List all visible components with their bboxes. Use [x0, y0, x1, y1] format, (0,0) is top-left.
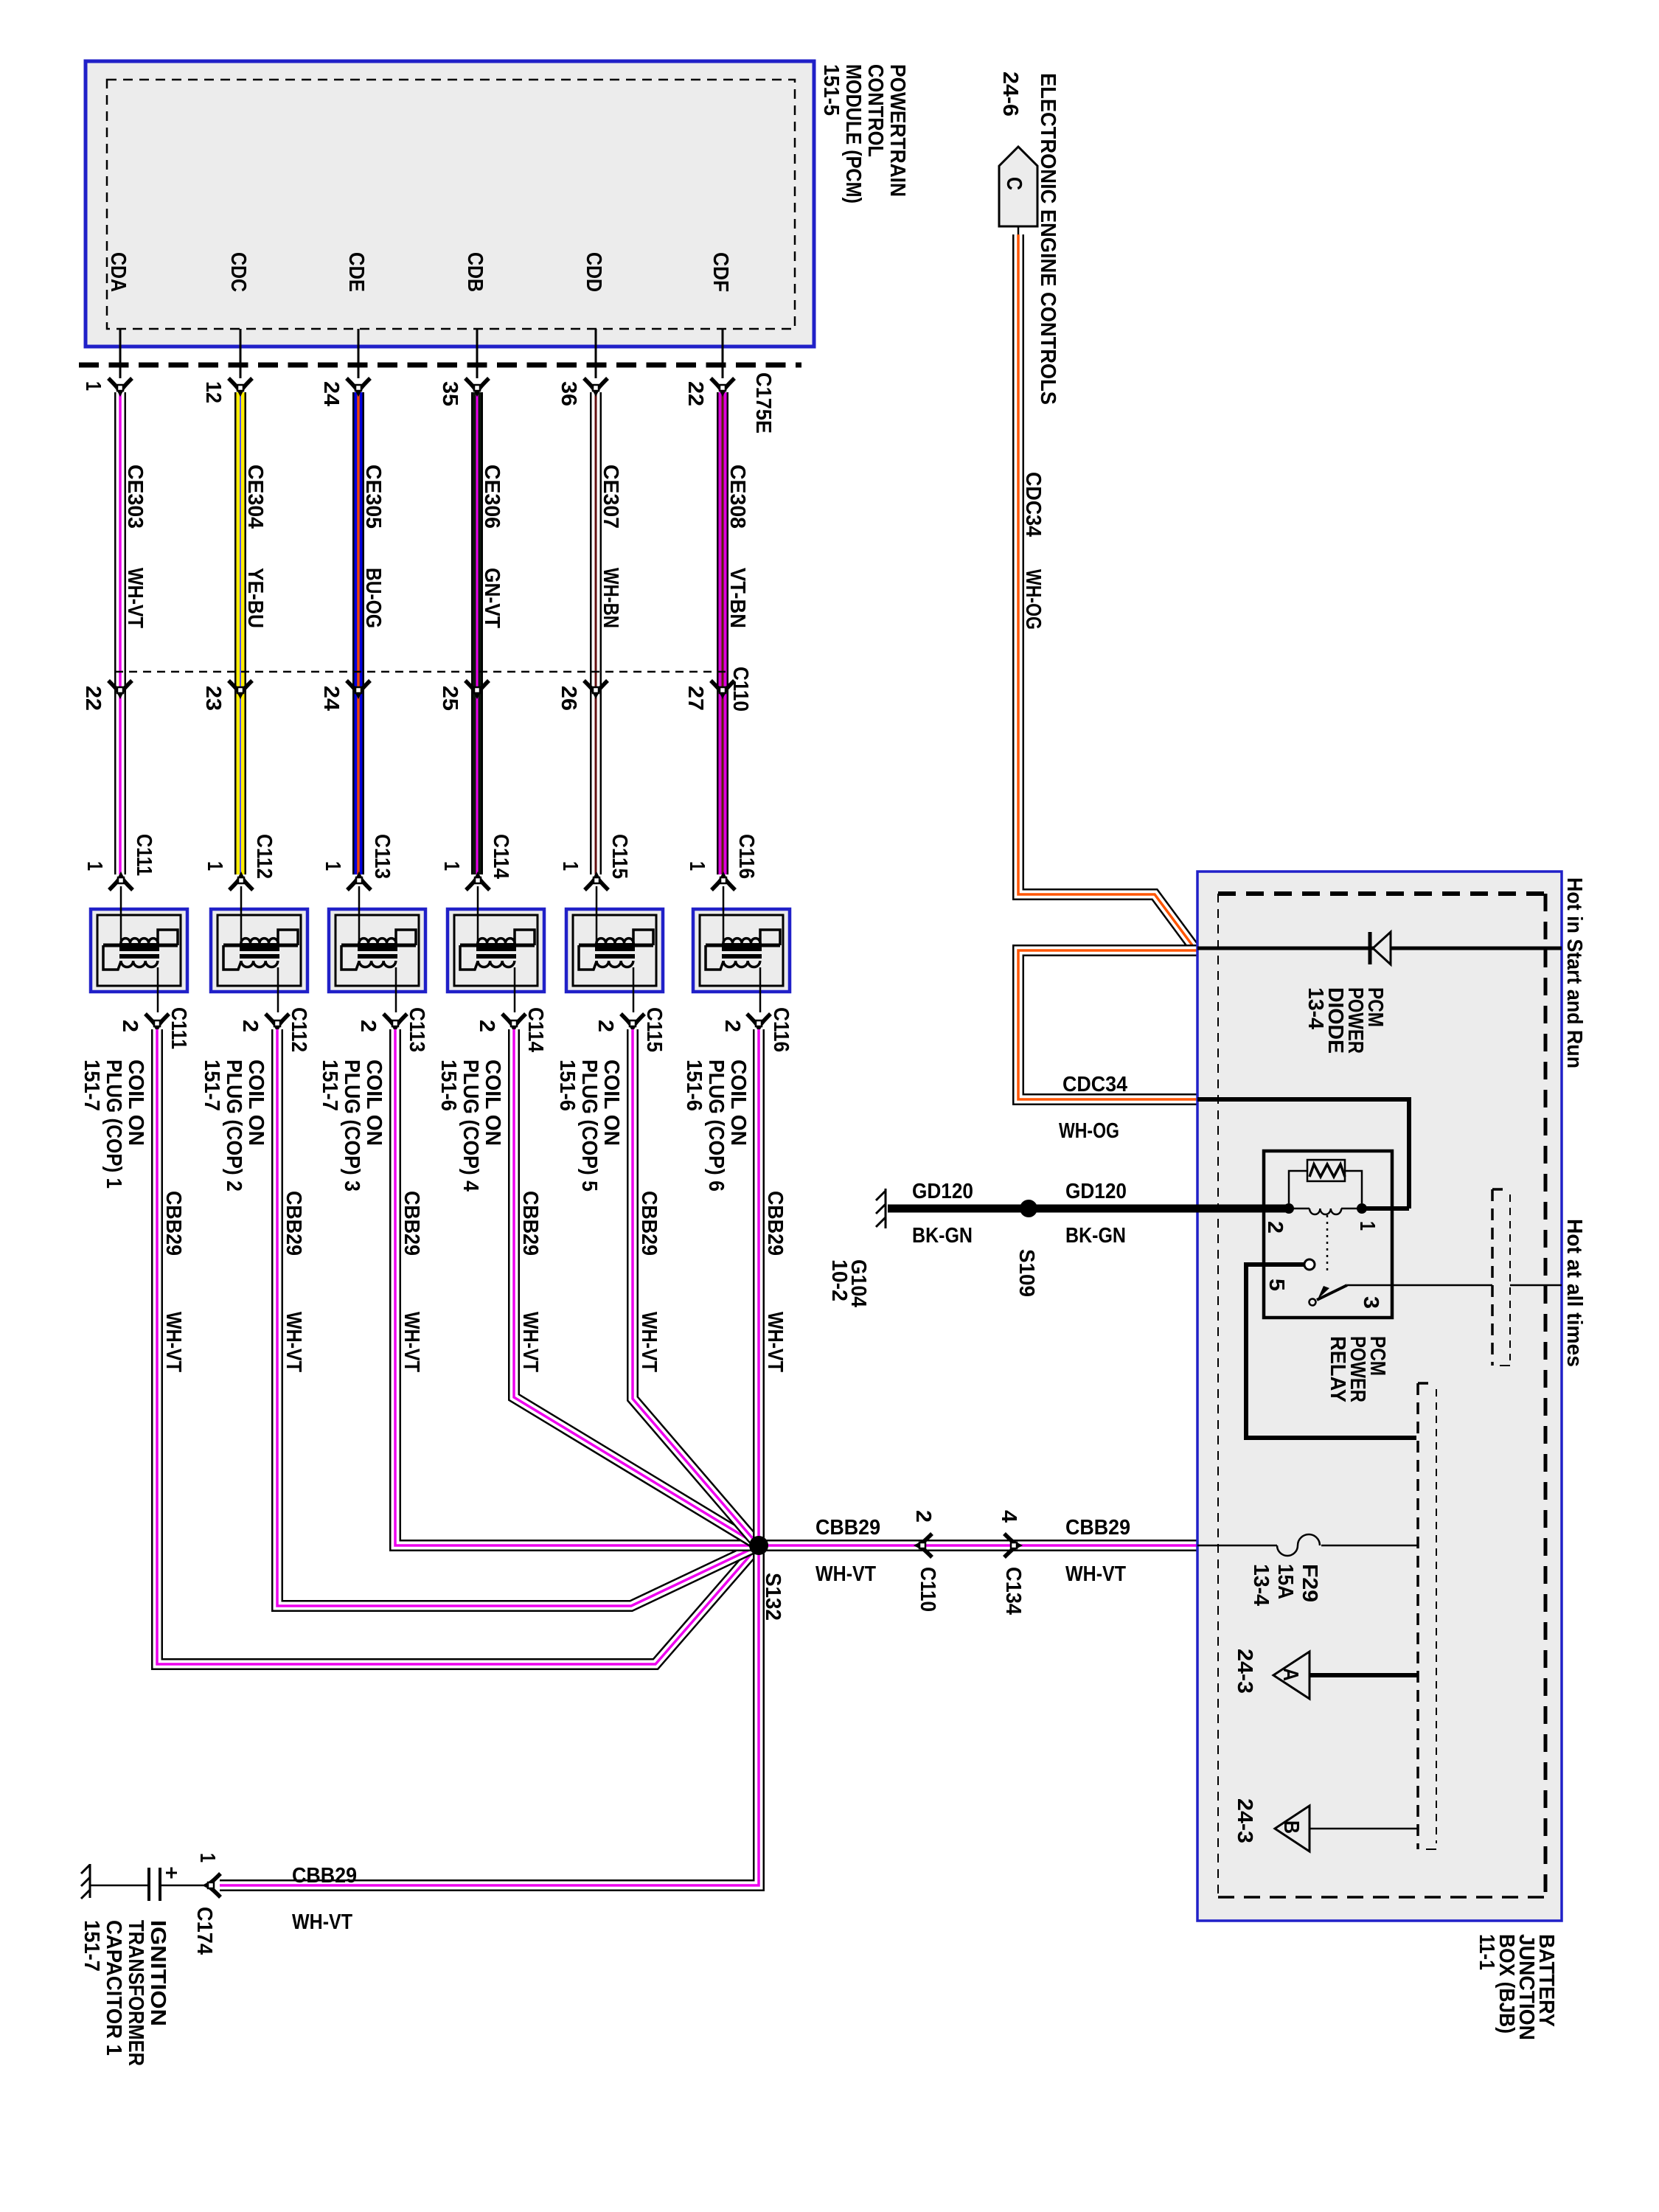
svg-text:WH-OG: WH-OG [1059, 1119, 1119, 1143]
svg-text:CDC34: CDC34 [1062, 1073, 1127, 1096]
svg-text:C134: C134 [1001, 1567, 1025, 1615]
svg-text:1: 1 [81, 381, 105, 391]
svg-text:WH-VT: WH-VT [400, 1312, 423, 1372]
svg-text:BU-OG: BU-OG [361, 568, 385, 628]
svg-text:WH-OG: WH-OG [1021, 569, 1045, 630]
svg-text:26: 26 [557, 686, 580, 711]
svg-text:VT-BN: VT-BN [726, 568, 749, 628]
svg-text:CBB29: CBB29 [161, 1191, 185, 1256]
svg-text:24-6: 24-6 [998, 72, 1022, 116]
svg-text:CBB29: CBB29 [292, 1864, 357, 1888]
svg-text:CBB29: CBB29 [400, 1191, 423, 1256]
svg-text:Hot in Start and Run: Hot in Start and Run [1562, 877, 1586, 1068]
svg-text:C112: C112 [252, 834, 276, 879]
svg-text:CE308: CE308 [726, 465, 749, 529]
svg-text:25: 25 [438, 686, 462, 711]
svg-text:CDA: CDA [106, 252, 130, 292]
svg-text:WH-VT: WH-VT [763, 1312, 787, 1372]
svg-text:C175E: C175E [751, 372, 775, 434]
svg-text:2: 2 [594, 1020, 617, 1032]
svg-text:CBB29: CBB29 [637, 1191, 661, 1256]
svg-text:WH-VT: WH-VT [1065, 1562, 1126, 1586]
svg-text:CE303: CE303 [123, 465, 147, 529]
svg-text:C112: C112 [287, 1007, 310, 1052]
svg-text:1: 1 [203, 861, 226, 871]
svg-text:CE304: CE304 [243, 465, 267, 529]
svg-text:1: 1 [321, 861, 344, 871]
svg-text:CDF: CDF [709, 252, 732, 292]
svg-text:22: 22 [684, 381, 707, 406]
svg-text:G10410-2: G10410-2 [827, 1259, 870, 1307]
svg-text:24-3: 24-3 [1233, 1649, 1256, 1694]
svg-text:CDD: CDD [582, 252, 605, 292]
svg-text:24: 24 [319, 686, 343, 711]
svg-text:CBB29: CBB29 [282, 1191, 305, 1256]
svg-text:C174: C174 [192, 1907, 216, 1955]
svg-text:C116: C116 [769, 1007, 793, 1052]
svg-text:23: 23 [201, 686, 225, 711]
svg-text:2: 2 [1263, 1221, 1287, 1234]
svg-text:CDC: CDC [226, 252, 250, 292]
svg-text:24-3: 24-3 [1233, 1798, 1256, 1843]
svg-text:WH-VT: WH-VT [161, 1312, 185, 1372]
svg-text:C110: C110 [916, 1567, 939, 1612]
svg-text:C114: C114 [489, 834, 512, 879]
svg-text:WH-VT: WH-VT [123, 568, 147, 628]
svg-text:35: 35 [438, 381, 462, 406]
svg-text:2: 2 [911, 1510, 935, 1523]
svg-text:22: 22 [81, 686, 105, 711]
svg-text:S132: S132 [761, 1573, 785, 1621]
svg-text:WH-VT: WH-VT [282, 1312, 305, 1372]
svg-text:C111: C111 [132, 834, 156, 876]
svg-text:C113: C113 [370, 834, 394, 879]
svg-text:BK-GN: BK-GN [912, 1224, 973, 1248]
svg-text:C113: C113 [405, 1007, 428, 1052]
svg-text:C115: C115 [642, 1007, 666, 1052]
svg-text:Hot at all times: Hot at all times [1562, 1219, 1586, 1367]
svg-text:CBB29: CBB29 [815, 1516, 880, 1540]
svg-text:WH-VT: WH-VT [518, 1312, 542, 1372]
svg-text:WH-VT: WH-VT [637, 1312, 661, 1372]
svg-text:CE307: CE307 [599, 465, 622, 529]
svg-text:1: 1 [439, 861, 463, 871]
svg-text:CBB29: CBB29 [518, 1191, 542, 1256]
svg-text:C115: C115 [608, 834, 631, 879]
svg-text:2: 2 [720, 1020, 744, 1032]
svg-text:1: 1 [1355, 1221, 1379, 1231]
svg-text:C: C [1002, 177, 1026, 190]
svg-text:2: 2 [238, 1020, 262, 1032]
svg-text:BK-GN: BK-GN [1065, 1224, 1126, 1248]
svg-text:1: 1 [195, 1853, 219, 1863]
svg-text:GD120: GD120 [1065, 1180, 1127, 1203]
svg-text:4: 4 [997, 1510, 1020, 1523]
svg-text:12: 12 [201, 381, 225, 403]
svg-text:GD120: GD120 [912, 1180, 973, 1203]
svg-text:C116: C116 [734, 834, 758, 879]
svg-text:WH-BN: WH-BN [599, 568, 622, 628]
svg-text:CDC34: CDC34 [1021, 472, 1045, 537]
svg-text:2: 2 [475, 1020, 498, 1032]
svg-text:1: 1 [685, 861, 709, 871]
svg-text:C111: C111 [167, 1007, 190, 1049]
svg-text:ELECTRONIC ENGINE CONTROLS: ELECTRONIC ENGINE CONTROLS [1036, 73, 1060, 405]
svg-text:CDE: CDE [344, 252, 368, 292]
svg-text:3: 3 [1359, 1296, 1382, 1309]
svg-text:CBB29: CBB29 [1065, 1516, 1130, 1540]
svg-text:1: 1 [558, 861, 582, 871]
svg-text:CDB: CDB [463, 252, 487, 292]
svg-text:WH-VT: WH-VT [292, 1910, 352, 1934]
svg-text:2: 2 [118, 1020, 142, 1032]
svg-text:27: 27 [684, 686, 707, 711]
svg-text:2: 2 [356, 1020, 380, 1032]
svg-text:24: 24 [319, 381, 343, 406]
svg-text:CE306: CE306 [480, 465, 504, 529]
svg-text:A: A [1279, 1668, 1302, 1681]
svg-text:GN-VT: GN-VT [480, 568, 504, 628]
svg-text:1: 1 [83, 861, 106, 871]
svg-text:C114: C114 [524, 1007, 547, 1052]
svg-text:36: 36 [557, 381, 580, 406]
svg-text:CE305: CE305 [361, 465, 385, 529]
svg-text:5: 5 [1265, 1279, 1288, 1291]
svg-text:S109: S109 [1015, 1249, 1038, 1297]
svg-text:YE-BU: YE-BU [243, 568, 267, 628]
svg-text:B: B [1279, 1820, 1303, 1834]
svg-text:CBB29: CBB29 [763, 1191, 787, 1256]
svg-text:WH-VT: WH-VT [815, 1562, 876, 1586]
svg-text:C110: C110 [728, 667, 752, 712]
